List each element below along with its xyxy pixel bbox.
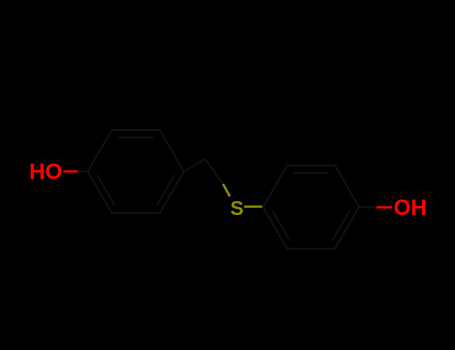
wire: bond O1-C1 red half xyxy=(63,170,77,172)
svg-text:OH: OH xyxy=(394,195,427,220)
wire: bond CH2-S dark half xyxy=(205,159,223,184)
inner double bond top xyxy=(119,136,154,138)
left benzene ring xyxy=(88,130,184,213)
label HO (left phenol hydroxyl) xyxy=(29,159,62,184)
inner double bond lower-right xyxy=(157,175,174,205)
wire: bond O1-C1 dark half xyxy=(78,170,88,172)
wire: bond S-C1' olive xyxy=(244,205,262,207)
inner double bond lower-left xyxy=(272,210,289,240)
wire: bond C4-CH2 xyxy=(184,159,205,172)
wire: bond C4'-O2 dark half xyxy=(359,206,377,208)
label OH (right phenol hydroxyl) xyxy=(394,195,427,220)
svg-text:HO: HO xyxy=(29,159,62,184)
label S (thioether sulfur) xyxy=(230,198,243,220)
inner double bond lower-left xyxy=(97,175,114,205)
inner double bond top xyxy=(294,172,329,174)
right benzene ring xyxy=(263,165,359,248)
svg-text:S: S xyxy=(230,198,243,220)
wire: bond C4'-O2 red half xyxy=(377,206,393,208)
inner double bond lower-right xyxy=(332,210,349,240)
wire: bond CH2-S olive half xyxy=(223,184,230,196)
